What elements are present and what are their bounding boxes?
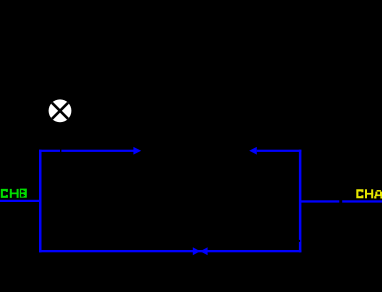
label CHB, block-cursor letter B (green block, black counters) bbox=[20, 189, 27, 198]
wire: right vertical bbox=[299, 150, 302, 253]
wire: top-right horizontal segment bbox=[257, 150, 302, 152]
label CHB (green), letter C bbox=[1, 189, 8, 198]
wire: bottom horizontal bbox=[39, 250, 301, 252]
label CHB, letter H bbox=[10, 189, 19, 198]
arrow: top-right, pointing left bbox=[249, 147, 257, 155]
wire: CHB stub (left) bbox=[0, 200, 41, 202]
wire: top-left horizontal segment after small gap bbox=[61, 150, 133, 152]
label CHA, letter A (clipped at right edge) bbox=[374, 190, 382, 199]
wire: left vertical bbox=[39, 150, 42, 253]
arrow: bottom pair pointing right (left half of bowtie) bbox=[193, 247, 200, 255]
lamp X1 (indicator bulb, white circle with black cross) bbox=[49, 99, 72, 122]
wire: CHA stub (right), first part bbox=[301, 200, 339, 202]
label CHA, letter H bbox=[365, 189, 373, 198]
arrow: bottom pair pointing left (right half of bowtie) bbox=[200, 247, 207, 255]
label CHA (yellow), letter C bbox=[356, 189, 363, 198]
wire: top-left horizontal segment (to arrow) bbox=[39, 150, 60, 152]
wire: CHA stub after small gap bbox=[342, 200, 382, 202]
notch in right vertical wire bbox=[299, 240, 300, 242]
arrow: top-left, pointing right bbox=[133, 147, 141, 155]
